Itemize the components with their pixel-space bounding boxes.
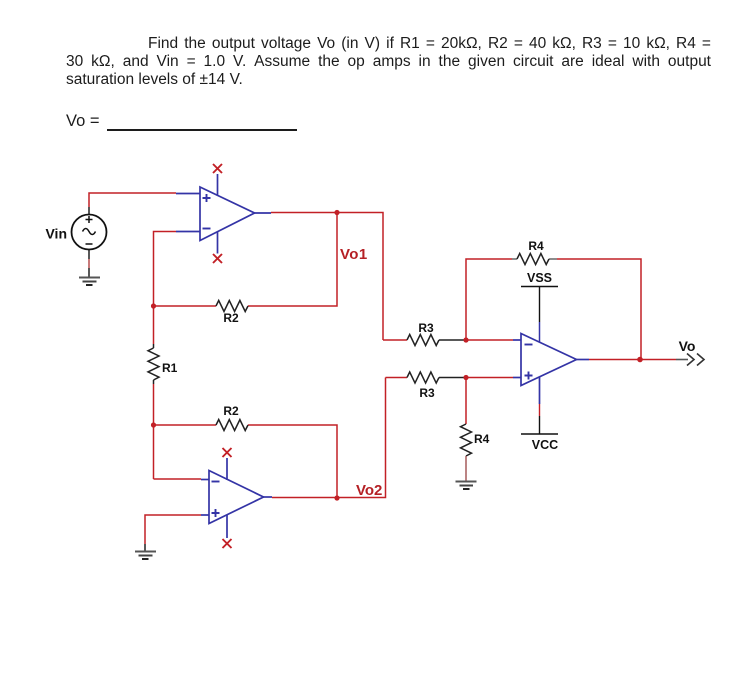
op-amp U1 xyxy=(176,174,271,254)
resistor R3 (top) xyxy=(407,335,439,346)
junction output node xyxy=(637,357,643,363)
no-connect X U2 top power pin xyxy=(223,448,232,457)
ground (below U2) xyxy=(135,552,156,560)
resistor R2 (bottom) xyxy=(216,420,248,431)
junction U3 noninverting node xyxy=(463,375,468,380)
wire R3b row (Vo2 to U3 noninverting) xyxy=(386,377,514,379)
power symbol VCC xyxy=(521,404,558,434)
op-amp U3 xyxy=(513,334,589,405)
wire node A to U2 inverting input xyxy=(154,478,202,480)
power symbol VSS xyxy=(521,287,558,343)
svg-text:Vo1: Vo1 xyxy=(340,246,368,263)
svg-text:R2: R2 xyxy=(223,311,239,325)
junction node A bottom xyxy=(151,422,156,427)
ground (below R4) xyxy=(456,482,477,490)
junction node A top xyxy=(151,303,156,308)
svg-text:R1: R1 xyxy=(162,361,178,375)
wire Vin bottom to ground xyxy=(88,250,90,278)
svg-text:Vo2: Vo2 xyxy=(356,482,382,499)
wire U2 output Vo2 node xyxy=(272,378,386,498)
no-connect X U2 bottom power pin xyxy=(223,539,232,548)
op-amp U2 xyxy=(201,458,272,538)
svg-text:Vin: Vin xyxy=(45,226,67,242)
problem statement line 3 xyxy=(66,71,243,89)
svg-text:VSS: VSS xyxy=(527,271,552,285)
resistor R2 (top) xyxy=(216,301,248,312)
svg-text:R4: R4 xyxy=(474,432,490,446)
output arrow Vo xyxy=(676,354,704,366)
wire U2 noninverting input to ground xyxy=(145,515,201,552)
junction U3 inverting node xyxy=(463,337,468,342)
wire U3 output xyxy=(589,359,676,361)
voltage source Vin xyxy=(72,215,107,250)
answer blank line xyxy=(107,129,297,131)
wire R2a feedback row xyxy=(154,213,338,307)
wire U1 output to Vo1 corner xyxy=(271,213,383,341)
svg-text:R4: R4 xyxy=(528,239,544,253)
no-connect X U1 top power pin xyxy=(213,164,222,173)
resistor R1 xyxy=(148,344,159,384)
resistor R3 (bottom) xyxy=(407,372,439,383)
junction Vo2 node xyxy=(334,495,339,500)
wire U1 inverting input to node A xyxy=(154,232,177,345)
resistor R4 (top feedback) xyxy=(517,254,549,265)
wire R4a feedback (U3 inverting to output) xyxy=(466,259,641,360)
wire Vin top to U1 noninverting input xyxy=(89,193,176,215)
no-connect X U1 bottom power pin xyxy=(213,254,222,263)
problem statement line 2 xyxy=(66,53,711,71)
answer label Vo = xyxy=(66,112,100,130)
junction U1 output node xyxy=(334,210,339,215)
problem statement line 1 xyxy=(148,35,711,53)
ground (below Vin) xyxy=(79,278,100,286)
svg-text:VCC: VCC xyxy=(532,438,558,452)
svg-text:R3: R3 xyxy=(418,321,434,335)
resistor R4 (to ground) xyxy=(461,378,472,482)
wire R3a row (Vo1 to U3 inverting) xyxy=(383,339,513,341)
wire node A lower segment xyxy=(153,384,155,479)
svg-text:R3: R3 xyxy=(419,386,435,400)
wire R2b feedback row xyxy=(154,425,338,498)
svg-text:Vo: Vo xyxy=(679,338,696,354)
svg-text:R2: R2 xyxy=(223,404,239,418)
